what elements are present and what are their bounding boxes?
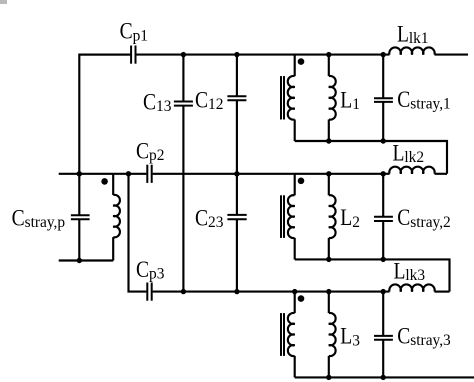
inductor Llk1 bbox=[389, 47, 434, 54]
wire T2 left rail bottom bbox=[294, 238, 296, 260]
wire T3 left rail top bbox=[294, 292, 296, 314]
label C23 bbox=[195, 205, 224, 231]
junction dot L1 bottom bbox=[326, 138, 331, 143]
svg-text:L: L bbox=[397, 21, 409, 47]
inductor Llk3 bbox=[389, 284, 434, 291]
label Cstray,p bbox=[12, 205, 66, 231]
polarity dot primary bbox=[101, 178, 108, 185]
label Cp1 bbox=[120, 18, 148, 44]
wire Cstray2 lead bottom bbox=[382, 221, 384, 259]
svg-text:stray,1: stray,1 bbox=[410, 96, 450, 113]
junction dot L3 bottom bbox=[326, 375, 331, 380]
svg-text:lk1: lk1 bbox=[409, 30, 429, 47]
wire Cp3 rail bbox=[129, 174, 147, 292]
svg-text:p2: p2 bbox=[149, 147, 164, 164]
wire T1 left rail top bbox=[294, 55, 296, 77]
label Cp3 bbox=[136, 257, 165, 283]
label Llk3 bbox=[394, 258, 426, 284]
wire primary bottom bbox=[59, 259, 113, 261]
svg-text:12: 12 bbox=[208, 96, 223, 113]
junction dot node1-C12 bbox=[234, 52, 239, 57]
label Llk1 bbox=[397, 21, 429, 47]
capacitor Cstray,3 bbox=[374, 335, 393, 337]
polarity dot T1 bbox=[298, 58, 305, 65]
capacitor Cp1 bbox=[130, 46, 132, 64]
wire node3 to corner bbox=[435, 291, 450, 293]
wire node3 row bbox=[153, 291, 390, 293]
svg-text:3: 3 bbox=[352, 332, 360, 349]
svg-text:C: C bbox=[195, 87, 208, 113]
label C13 bbox=[143, 89, 172, 115]
wire Cstray1 lead bottom bbox=[382, 102, 384, 141]
svg-text:stray,p: stray,p bbox=[25, 214, 66, 231]
label L3 bbox=[340, 323, 360, 349]
junction dot node1-C13 bbox=[181, 52, 186, 57]
polarity dot T2 bbox=[298, 178, 305, 185]
wire Cstray3 lead top bbox=[382, 292, 384, 336]
wire L2 lead top bbox=[328, 174, 330, 196]
wire node2 to corner bbox=[435, 173, 448, 175]
inductor primary winding bbox=[113, 195, 120, 238]
wire cell1 bottom bbox=[295, 141, 447, 174]
wire C12 column upper bbox=[236, 55, 238, 97]
svg-text:stray,2: stray,2 bbox=[410, 214, 450, 231]
junction dot node1-L1 bbox=[326, 52, 331, 57]
svg-text:L: L bbox=[340, 205, 352, 231]
svg-text:L: L bbox=[340, 87, 352, 113]
wire cell2 bottom bbox=[295, 259, 450, 291]
svg-text:2: 2 bbox=[352, 214, 360, 231]
junction dot C12-node2 bbox=[234, 171, 239, 176]
wire C13 column lower bbox=[182, 106, 184, 292]
svg-text:L: L bbox=[393, 140, 405, 166]
capacitor Cp3 bbox=[146, 283, 148, 301]
wire Cstray1 lead top bbox=[382, 55, 384, 99]
svg-text:lk2: lk2 bbox=[404, 149, 424, 166]
label Cstray,1 bbox=[397, 87, 450, 113]
wire T1 left rail bottom bbox=[294, 120, 296, 142]
inductor L3 bbox=[329, 313, 336, 356]
junction dot node3-rail3 bbox=[292, 289, 297, 294]
svg-text:stray,3: stray,3 bbox=[410, 332, 451, 349]
wire primary winding lead top bbox=[112, 174, 114, 195]
junction dot node2-Cstray2 bbox=[381, 171, 386, 176]
junction dot Cstray2 bottom bbox=[381, 257, 386, 262]
wire C23 column upper bbox=[236, 174, 238, 215]
wire L3 lead bottom bbox=[328, 356, 330, 378]
wire C12 column lower bbox=[236, 100, 238, 174]
wire primary left rail upper bbox=[79, 55, 131, 216]
label L1 bbox=[340, 87, 360, 113]
junction dot node1-Cstray1 bbox=[381, 52, 386, 57]
capacitor Cstray,p bbox=[71, 214, 90, 216]
capacitor C23 bbox=[227, 214, 246, 216]
label C12 bbox=[195, 87, 223, 113]
junction dot primary-Cp3rail bbox=[126, 171, 131, 176]
wire node1 top main segment bbox=[136, 54, 389, 56]
label Llk2 bbox=[393, 140, 425, 166]
junction dot node3-L3 bbox=[326, 289, 331, 294]
capacitor Cstray,1 bbox=[374, 97, 393, 99]
svg-text:23: 23 bbox=[208, 214, 224, 231]
wire primary left rail lower bbox=[78, 219, 80, 260]
inductor L1 bbox=[329, 76, 336, 120]
inductor T3 secondary winding bbox=[288, 313, 295, 356]
svg-text:C: C bbox=[397, 323, 410, 349]
transformer T3 core bbox=[280, 313, 282, 356]
label Cstray,2 bbox=[397, 205, 450, 231]
wire L1 lead bottom bbox=[328, 120, 330, 142]
svg-text:C: C bbox=[397, 87, 410, 113]
wire primary top bbox=[59, 173, 147, 175]
svg-text:lk3: lk3 bbox=[405, 267, 425, 284]
inductor T1 secondary winding bbox=[288, 76, 295, 120]
capacitor Cstray,2 bbox=[374, 216, 393, 218]
capacitor C12 bbox=[227, 95, 246, 97]
wire cell3 bottom bbox=[295, 376, 474, 378]
junction dot Cstray3 bottom bbox=[381, 375, 386, 380]
capacitor Cp2 bbox=[146, 165, 148, 183]
wire node1 top left segment bbox=[79, 54, 130, 56]
label Cp2 bbox=[136, 138, 164, 164]
polarity dot T3 bbox=[298, 295, 305, 302]
junction dot primary-rail bbox=[77, 171, 82, 176]
wire primary winding lead bottom bbox=[112, 237, 114, 260]
svg-text:L: L bbox=[394, 258, 406, 284]
svg-text:13: 13 bbox=[156, 98, 172, 115]
junction dot Cstray1 bottom bbox=[381, 138, 386, 143]
inductor L2 bbox=[329, 195, 336, 238]
svg-text:C: C bbox=[195, 205, 208, 231]
junction dot C13-node3 bbox=[181, 289, 186, 294]
svg-text:C: C bbox=[12, 205, 25, 231]
wire L3 lead top bbox=[328, 292, 330, 314]
svg-text:p3: p3 bbox=[149, 266, 165, 283]
label Cstray,3 bbox=[397, 323, 451, 349]
inductor Llk2 bbox=[389, 167, 434, 174]
junction dot L2 bottom bbox=[326, 257, 331, 262]
svg-text:L: L bbox=[340, 323, 352, 349]
wire node1 top right segment bbox=[435, 54, 469, 56]
junction dot primary bottom bbox=[77, 258, 82, 263]
label L2 bbox=[340, 205, 360, 231]
wire Cstray2 lead top bbox=[382, 174, 384, 217]
svg-text:C: C bbox=[120, 18, 133, 44]
wire L1 lead top bbox=[328, 55, 330, 77]
svg-text:1: 1 bbox=[352, 96, 360, 113]
wire Cstray3 lead bottom bbox=[382, 340, 384, 378]
wire T3 left rail bottom bbox=[294, 356, 296, 378]
svg-text:C: C bbox=[143, 89, 156, 115]
scan artifact top-left corner bbox=[0, 0, 7, 4]
wire C13 column upper bbox=[182, 55, 184, 102]
inductor T2 secondary winding bbox=[288, 195, 295, 238]
svg-text:C: C bbox=[136, 138, 149, 164]
junction dot node2-L2 bbox=[326, 171, 331, 176]
wire T2 left rail top bbox=[294, 174, 296, 196]
wire L2 lead bottom bbox=[328, 238, 330, 260]
svg-text:C: C bbox=[397, 205, 410, 231]
transformer T2 core bbox=[280, 195, 282, 238]
capacitor C13 bbox=[174, 101, 193, 103]
transformer T1 core bbox=[280, 76, 282, 119]
wire C23 column lower bbox=[236, 219, 238, 291]
svg-text:p1: p1 bbox=[133, 27, 148, 44]
wire node2 row bbox=[153, 173, 390, 175]
junction dot node3-Cstray3 bbox=[381, 289, 386, 294]
svg-text:C: C bbox=[136, 257, 149, 283]
junction dot C23-node3 bbox=[234, 289, 239, 294]
